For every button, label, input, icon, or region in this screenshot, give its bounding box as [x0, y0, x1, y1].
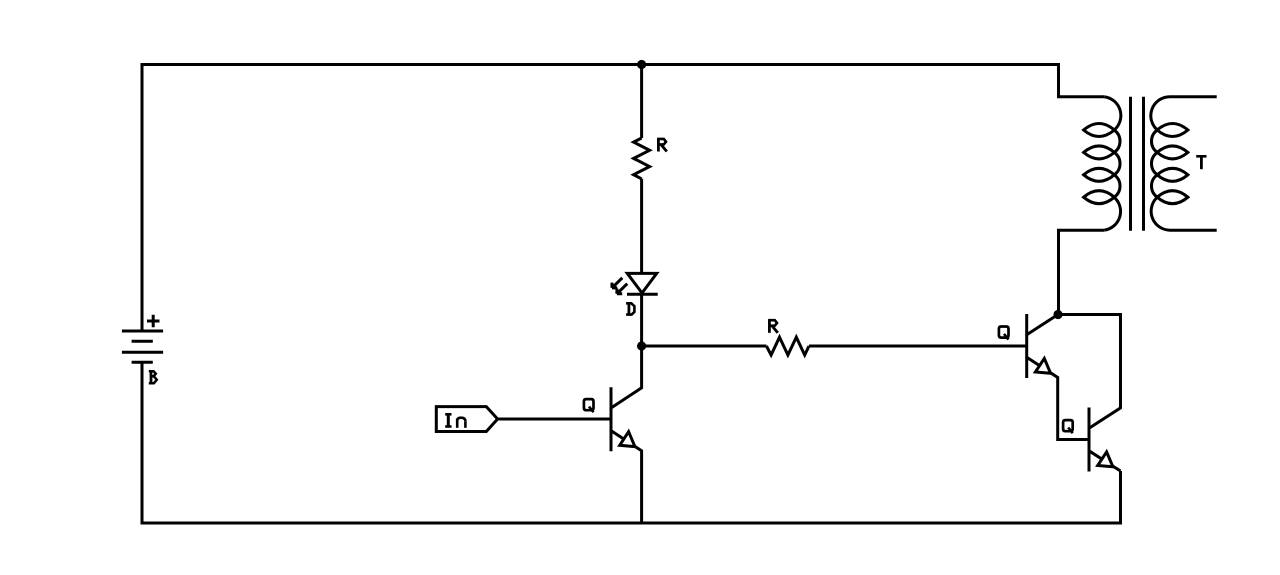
- transformer T secondary top arc: [1151, 97, 1170, 130]
- transformer T primary bottom arc: [1104, 197, 1120, 230]
- battery B long plate 2: [122, 351, 163, 354]
- transistor Q1 base bar: [610, 387, 613, 451]
- wire resistor R1 to LED anode: [640, 179, 643, 273]
- transistor Q3 emitter: [1089, 451, 1121, 471]
- label D: [626, 303, 634, 314]
- transformer T core line right: [1142, 97, 1145, 231]
- wire transformer primary bottom lead to Q2 collector junction: [1059, 230, 1105, 314]
- transformer T secondary turn 1: [1157, 124, 1188, 137]
- battery B short plate 2: [132, 361, 153, 364]
- wire resistor R2 to Q2 base: [809, 345, 1027, 348]
- input connector In: [436, 407, 497, 432]
- transformer T secondary bottom lead: [1170, 229, 1217, 232]
- LED D triangle: [627, 273, 656, 293]
- node junction dot LED cathode net: [637, 341, 646, 350]
- transformer T secondary bottom arc: [1151, 197, 1170, 230]
- wire left rail top + top rail + transformer primary top lead: [142, 65, 1104, 332]
- label In text: [445, 414, 465, 428]
- wire left rail bottom + bottom rail + Q3 emitter vertical: [142, 362, 1121, 523]
- label R1: [657, 139, 667, 152]
- battery plus sign: [147, 315, 160, 328]
- transformer T secondary turn link arcs: [1151, 130, 1157, 197]
- wire LED cathode to mid junction: [640, 294, 643, 346]
- transistor Q3 collector + wire to junction node: [1058, 315, 1121, 429]
- transistor Q2 base bar: [1025, 314, 1028, 378]
- battery B short plate 1: [132, 340, 153, 343]
- battery B long plate top: [122, 330, 163, 333]
- wire top junction to resistor R1: [640, 65, 643, 139]
- transformer T primary top arc: [1104, 97, 1121, 130]
- node junction dot top rail: [637, 60, 646, 69]
- resistor R2 zigzag: [766, 337, 809, 355]
- label Q2: [999, 327, 1009, 340]
- label Q3: [1063, 420, 1073, 433]
- transformer T secondary turn 4: [1157, 191, 1188, 204]
- resistor R1 zigzag: [634, 138, 650, 179]
- label R2: [768, 320, 778, 333]
- transformer T primary turn link arcs: [1114, 130, 1120, 197]
- transformer T primary turn 2: [1084, 146, 1115, 159]
- transformer T core line left: [1129, 97, 1132, 231]
- transistor Q2 collector: [1027, 315, 1058, 335]
- LED D cathode bar: [627, 293, 658, 296]
- transformer T secondary turn 3: [1157, 168, 1188, 181]
- transistor Q1 emitter: [611, 431, 642, 523]
- transistor Q3 emitter arrow: [1098, 452, 1113, 467]
- label Q1: [584, 399, 594, 412]
- transformer T primary turn 3: [1084, 168, 1115, 181]
- transformer T primary turn 4: [1084, 191, 1115, 204]
- transistor Q2 emitter + wire to Q3 base: [1027, 357, 1089, 439]
- LED D light arrow 2: [617, 284, 627, 294]
- wire mid junction to resistor R2: [642, 345, 767, 348]
- transformer T secondary top lead: [1170, 95, 1217, 98]
- transistor Q2 emitter arrow: [1035, 358, 1050, 373]
- transistor Q1 emitter arrow: [620, 432, 635, 447]
- transistor Q3 base bar: [1088, 408, 1091, 472]
- LED D light arrow 1: [612, 278, 622, 288]
- transformer T secondary turn 2: [1157, 146, 1188, 159]
- label B: [149, 371, 157, 383]
- wire In to Q1 base: [498, 418, 611, 421]
- transistor Q1 collector: [611, 346, 642, 408]
- transformer T primary turn 1: [1084, 124, 1115, 137]
- node junction dot Q2 collector net: [1053, 310, 1062, 319]
- label T: [1196, 156, 1206, 169]
